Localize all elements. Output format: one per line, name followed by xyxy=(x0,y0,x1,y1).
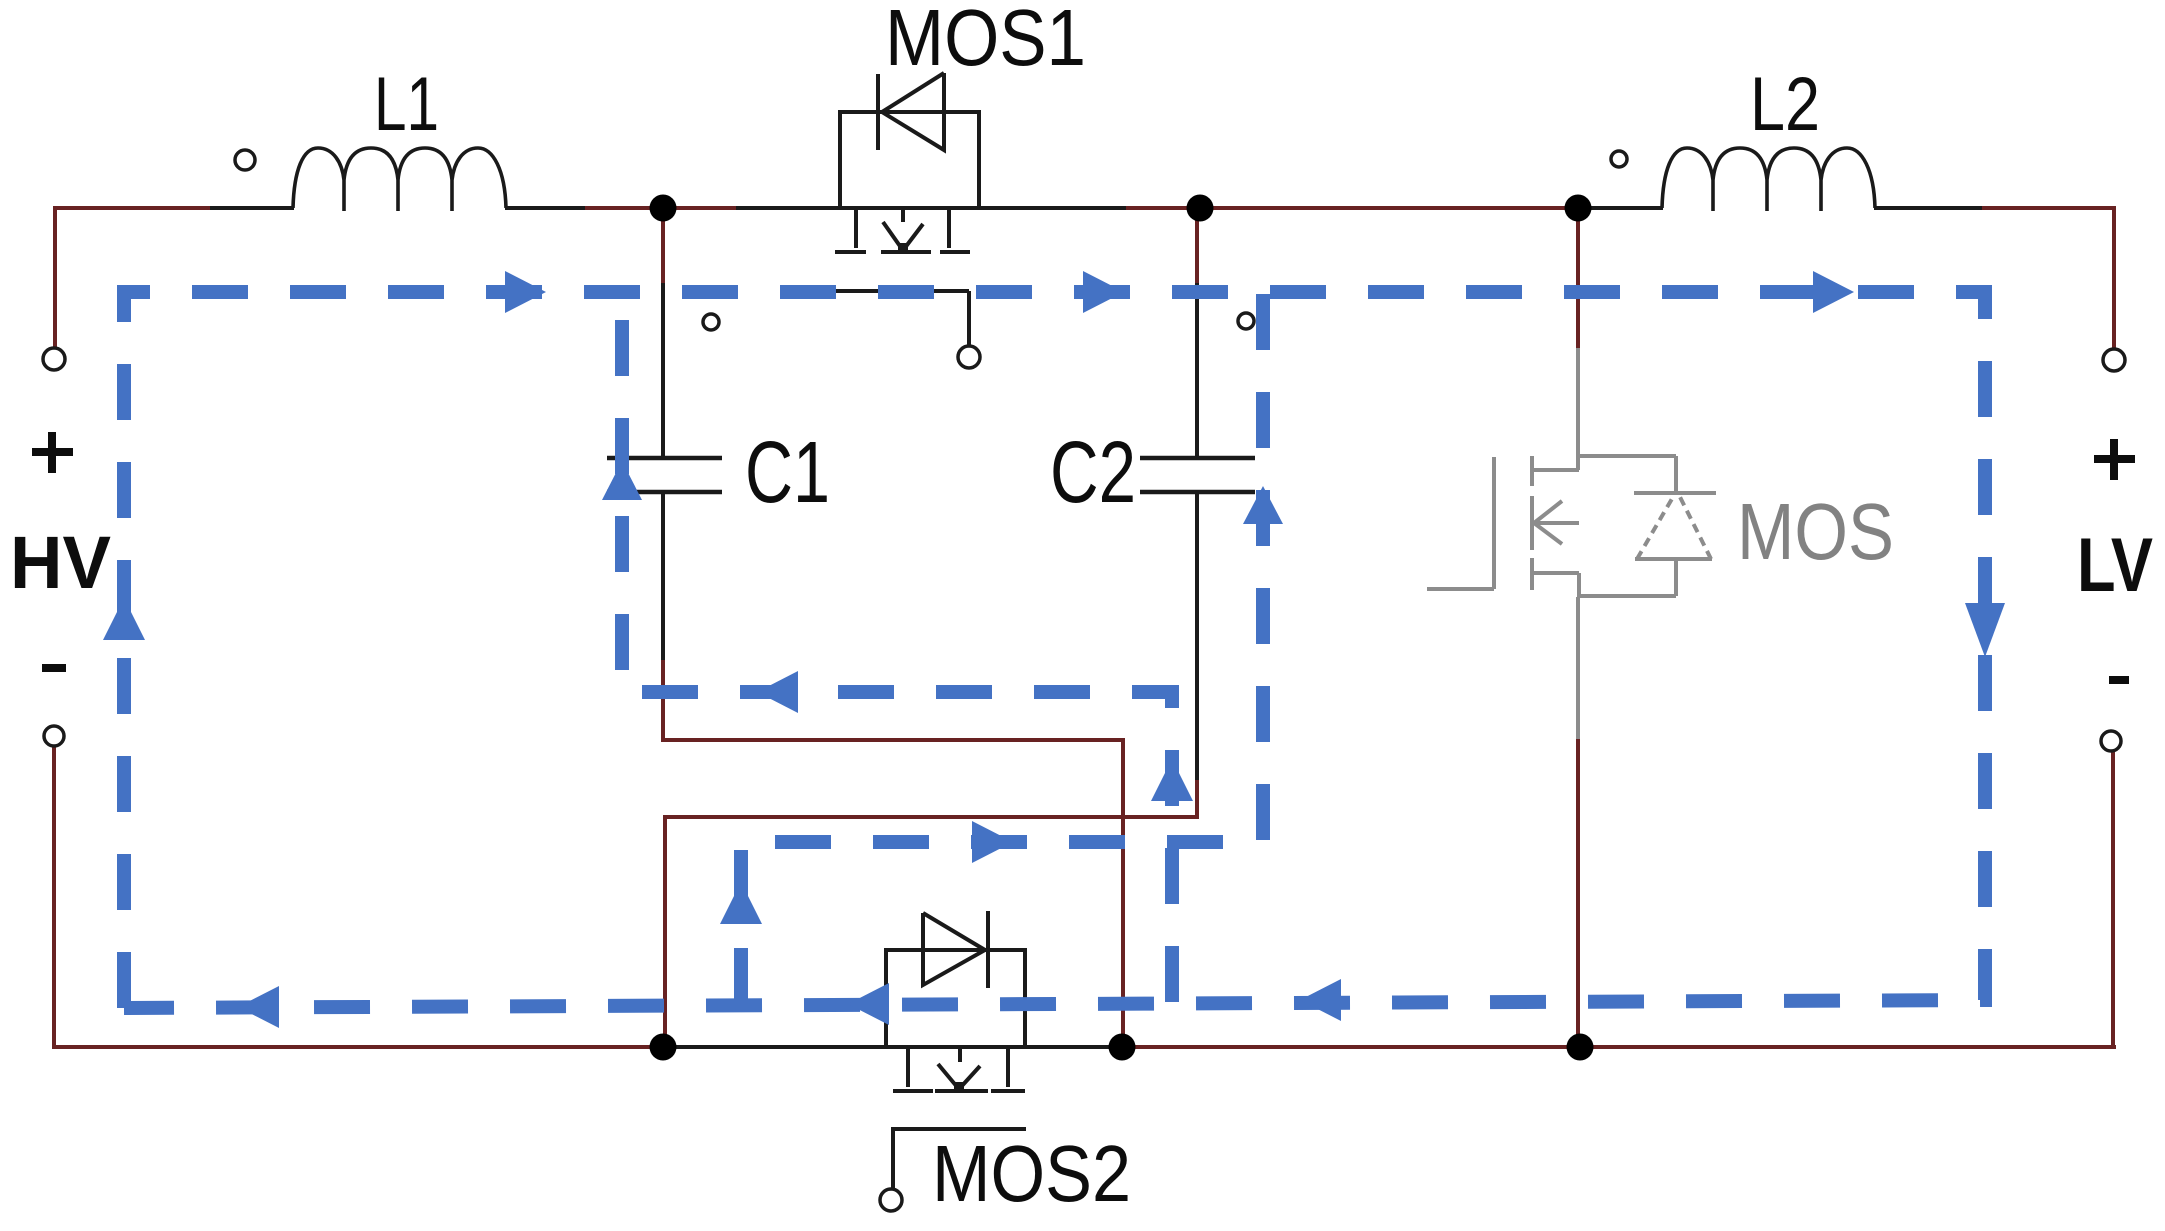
gray MOS bottom box line xyxy=(1579,559,1676,597)
inductor L2 leads xyxy=(1584,206,1982,210)
wire: gray MOS drain red stub from J3 xyxy=(1576,208,1580,350)
svg-text:LV: LV xyxy=(2077,523,2153,608)
wire: top rail red mid-left segment (J1 area) xyxy=(585,206,736,210)
node dot marker near C1 xyxy=(703,314,719,330)
node dot marker near L2 xyxy=(1611,151,1627,167)
wire: bottom rail red right segment xyxy=(1121,1045,2116,1049)
capacitor C1 plates xyxy=(607,458,722,492)
MOSFET MOS2 channel/stubs xyxy=(893,1047,1025,1091)
current arrow left (bottom row right) xyxy=(1300,979,1341,1021)
svg-text:L2: L2 xyxy=(1750,62,1820,147)
gray MOS gate bar xyxy=(1492,457,1496,589)
current arrow up (C1 loop) xyxy=(602,461,642,500)
HV + terminal circle xyxy=(43,348,65,370)
MOSFET MOS (gray, inactive) xyxy=(1427,348,1716,741)
current arrow left (C1 loop horizontal) xyxy=(757,671,798,713)
node J2 junction dot xyxy=(1187,195,1214,222)
MOSFET MOS2 gate lead xyxy=(893,1129,1026,1188)
MOSFET MOS1 body diode (points left) xyxy=(878,73,944,150)
capacitor C2 bottom wire black xyxy=(1195,494,1199,782)
MOSFET MOS2 body-diode box xyxy=(886,950,1025,1047)
gray MOS body-diode base xyxy=(1635,557,1712,561)
wire: HV top rail red left segment xyxy=(55,206,210,210)
wire: HV left vertical lower (from - terminal to bottom rail) xyxy=(52,747,56,1049)
inductor L1 xyxy=(293,148,506,211)
MOSFET MOS1 drain-source wire (black) xyxy=(736,206,1126,210)
capacitor C1 bottom wire black xyxy=(661,494,665,662)
svg-text:C2: C2 xyxy=(1050,424,1136,521)
MOSFET MOS1 gate lead xyxy=(836,291,969,345)
current arrow right (top row 1) xyxy=(505,271,546,313)
gray MOS body-diode triangle sides (dashed) xyxy=(1637,497,1711,559)
capacitor C1 top wire black xyxy=(661,283,665,456)
MOSFET MOS2 gate terminal circle xyxy=(880,1189,902,1211)
svg-text:L1: L1 xyxy=(374,62,439,147)
current arrow left (bottom row mid) xyxy=(848,983,889,1025)
gray MOS gate lead xyxy=(1427,587,1494,591)
wire: HV left vertical upper (to + terminal) xyxy=(53,206,57,348)
LV + sign xyxy=(2094,439,2135,480)
current arrow up (C2 loop left vertical) xyxy=(720,882,762,924)
gray MOS body stub + arrow xyxy=(1533,501,1579,544)
LV - terminal circle xyxy=(2101,731,2121,751)
node dot marker near L1 xyxy=(235,150,255,170)
MOSFET MOS1 gate terminal circle xyxy=(958,346,980,368)
gray MOS channel bar segments xyxy=(1530,456,1534,590)
gray MOS source lead down xyxy=(1576,597,1580,741)
node J6 junction dot xyxy=(1567,1034,1594,1061)
MOSFET MOS1 channel/stubs xyxy=(835,208,970,252)
HV + sign xyxy=(32,432,73,473)
current path outer loop (blue dashed) xyxy=(124,292,1985,1008)
MOSFET MOS1 body-diode box xyxy=(840,112,979,208)
gray MOS drain lead xyxy=(1576,348,1580,470)
current arrow right (C2 loop horizontal) xyxy=(972,821,1013,863)
node dot marker near C2 xyxy=(1238,313,1254,329)
wire: gray MOS source red lead to bottom rail xyxy=(1576,739,1580,1047)
LV + terminal circle xyxy=(2103,349,2125,371)
capacitor C2 plates xyxy=(1140,458,1255,492)
wire: top rail red mid-right segment (J2 to J3) xyxy=(1126,206,1584,210)
svg-text:C1: C1 xyxy=(745,424,830,521)
svg-text:HV: HV xyxy=(10,521,111,604)
current arrow left (bottom row left) xyxy=(238,986,279,1028)
wire: bottom rail red left segment xyxy=(52,1045,664,1049)
capacitor C1 top wire (red stub below J1) xyxy=(661,208,665,283)
current arrow down (outer loop right) xyxy=(1965,603,2005,657)
capacitor C2 top wire black xyxy=(1195,283,1199,456)
inductor L1 leads xyxy=(210,206,585,210)
gray MOS drain stub xyxy=(1532,468,1579,472)
current arrow right (top row 3) xyxy=(1813,271,1854,313)
gray MOS top box line xyxy=(1579,456,1676,493)
current path inner loop around C1 (blue dashed) xyxy=(622,292,1172,1002)
node J4 junction dot xyxy=(650,1034,677,1061)
gray MOS source stub xyxy=(1532,571,1579,575)
wire: C2 bottom red jog to bottom-left node J4 xyxy=(665,780,1197,1047)
wire: C1 bottom red jog to bottom-right node J5 xyxy=(663,660,1123,1047)
current arrow up (C2 loop right vertical) xyxy=(1243,486,1283,524)
MOSFET MOS2 body diode (points right) xyxy=(923,911,988,988)
node J5 junction dot xyxy=(1109,1034,1136,1061)
current arrow right (top row 2) xyxy=(1083,271,1124,313)
svg-text:MOS1: MOS1 xyxy=(885,0,1086,82)
wire: LV right vertical upper (top rail to + terminal) xyxy=(2112,206,2116,349)
wire: LV right vertical lower (from - terminal to bottom rail) xyxy=(2111,752,2115,1049)
svg-text:MOS: MOS xyxy=(1737,487,1894,576)
wire: bottom rail black segment under MOS2 xyxy=(664,1045,1121,1049)
current arrow up (C1 loop right vertical) xyxy=(1151,759,1193,801)
capacitor C2 top wire (red stub below J2) xyxy=(1195,208,1199,283)
svg-text:MOS2: MOS2 xyxy=(932,1129,1131,1218)
HV - terminal circle xyxy=(44,726,64,746)
gray MOS body-diode cathode bar xyxy=(1634,491,1716,495)
LV - sign xyxy=(2109,676,2129,684)
current path inner loop around C2/MOS2 (blue dashed) xyxy=(741,292,1263,1004)
node J1 junction dot xyxy=(650,195,677,222)
HV - sign xyxy=(42,664,66,672)
wire: top rail red right segment xyxy=(1982,206,2116,210)
current arrow up (outer loop left) xyxy=(103,598,145,640)
inductor L2 xyxy=(1662,148,1875,211)
node J3 junction dot xyxy=(1565,195,1592,222)
